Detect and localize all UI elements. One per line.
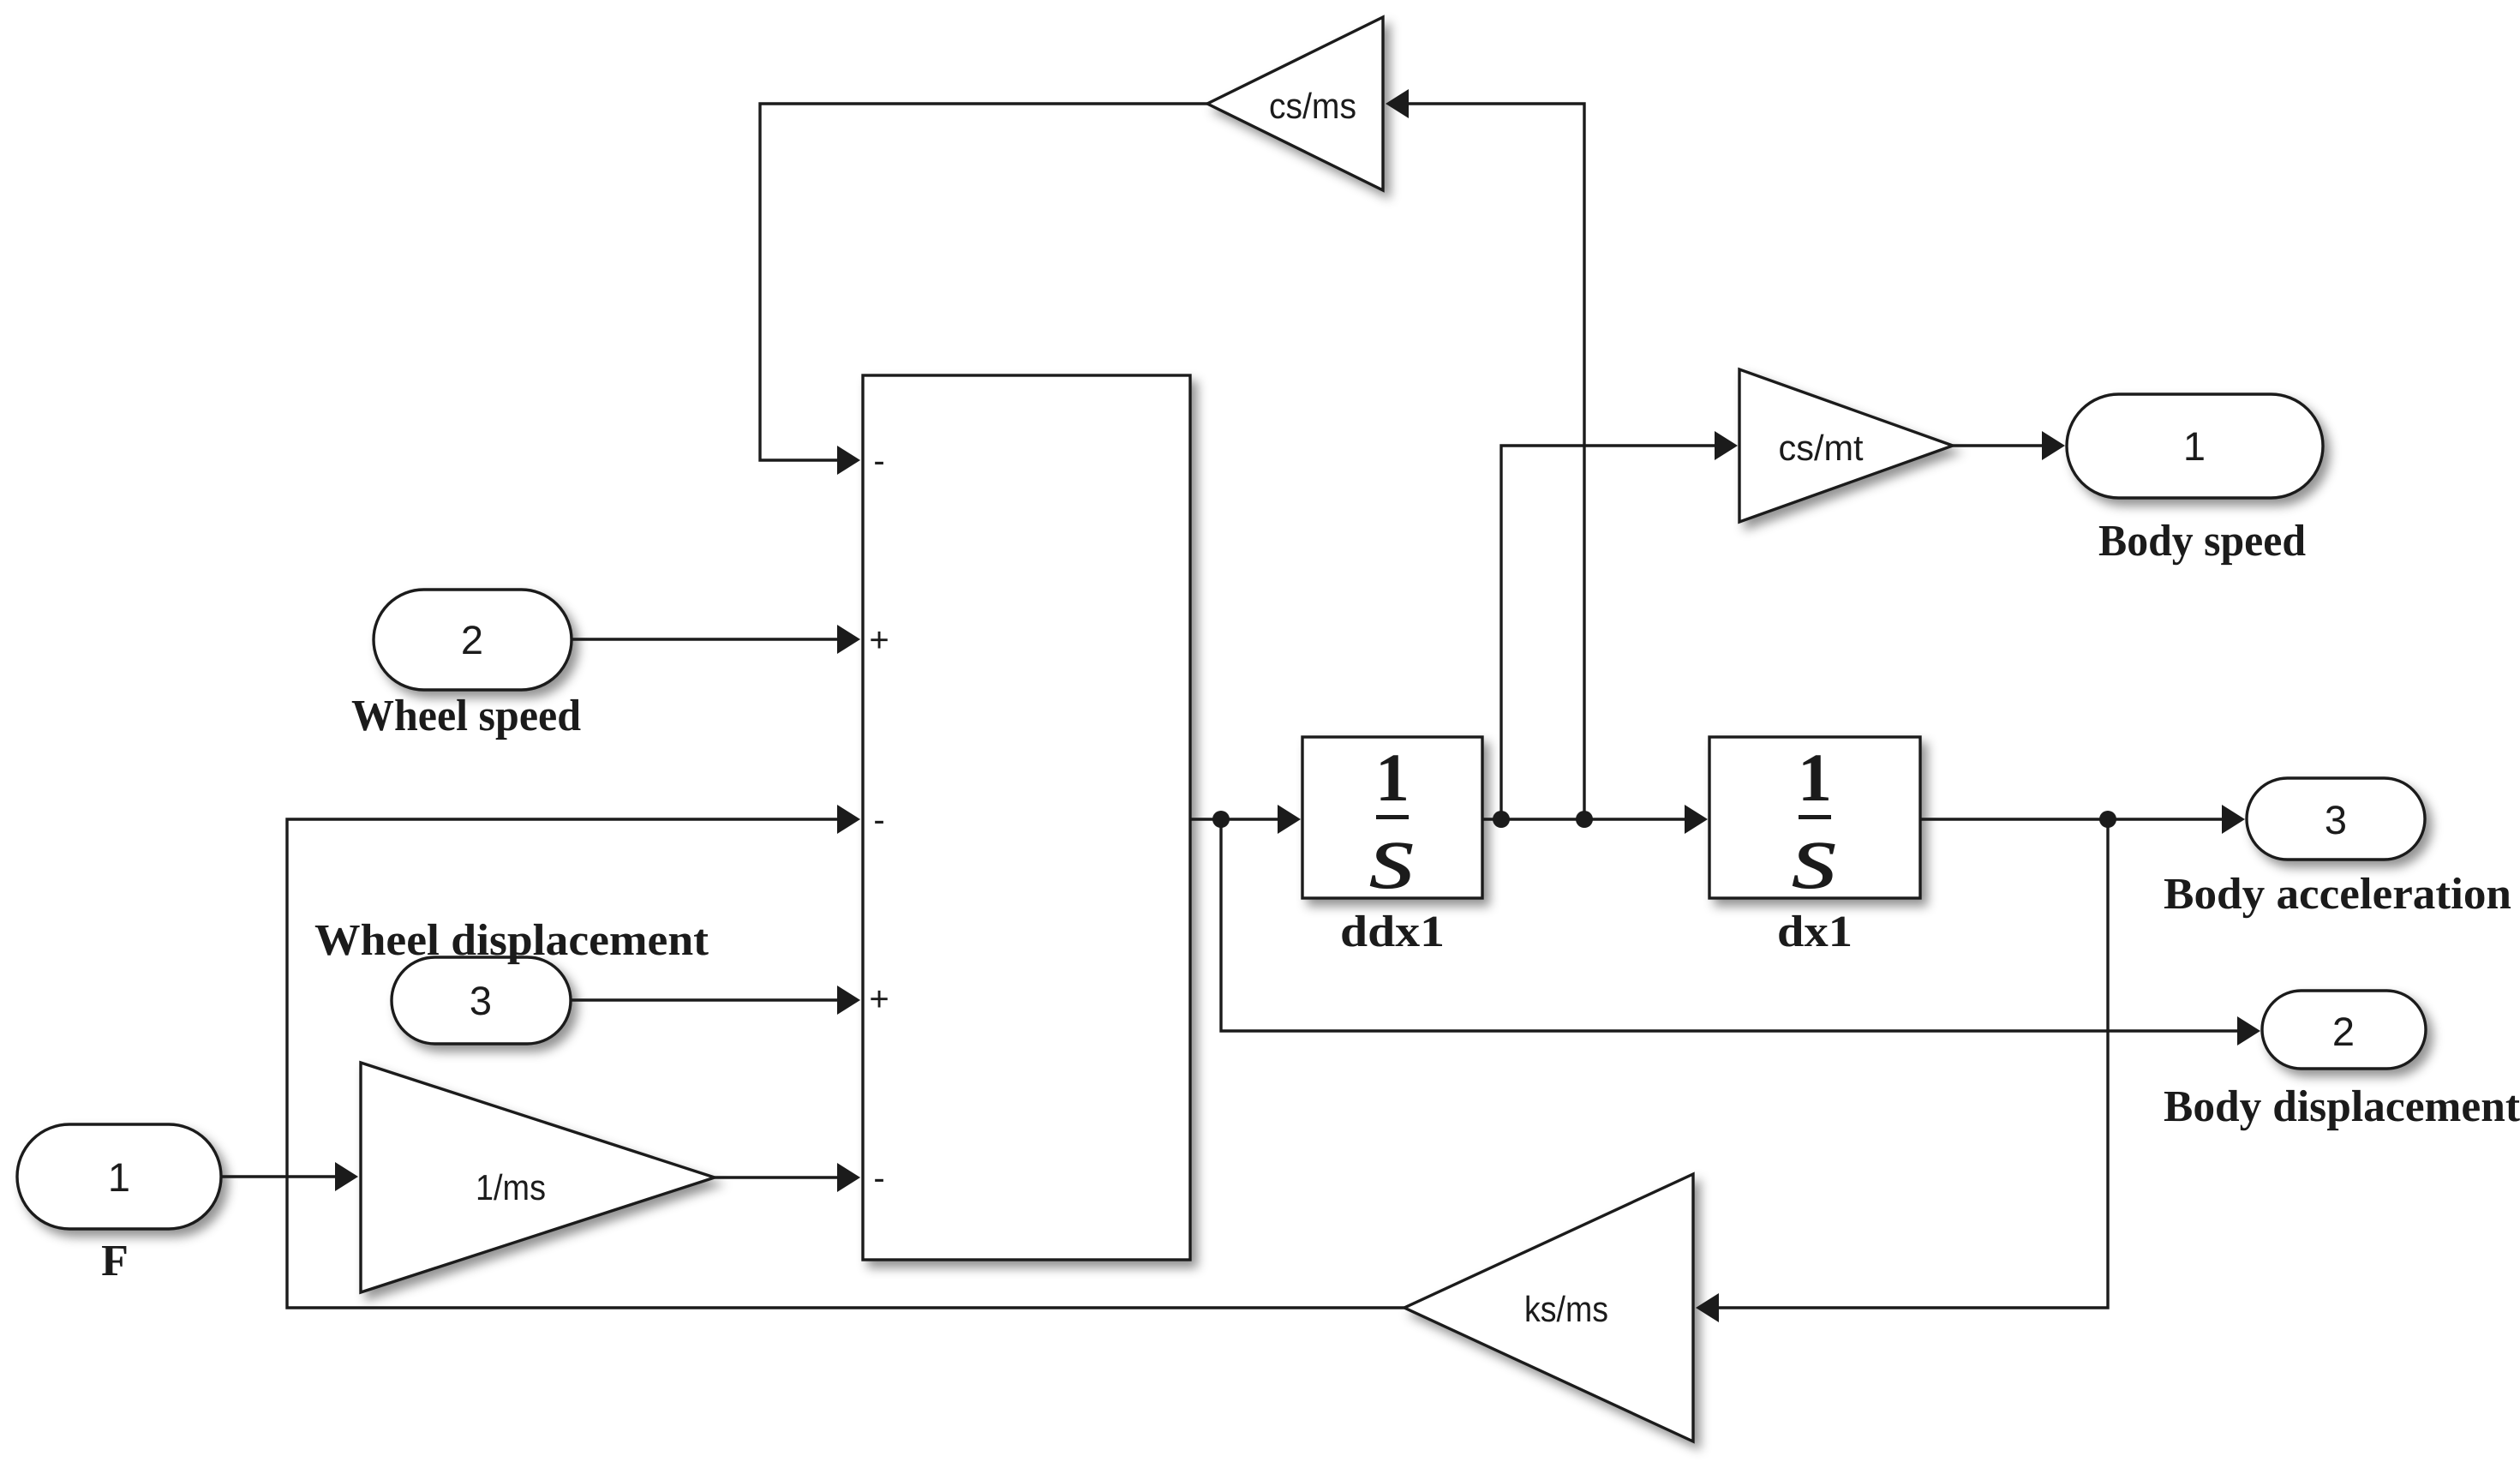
svg-text:3: 3 <box>470 978 492 1023</box>
sum block U1 (five-input add rectangle) <box>863 375 1190 1260</box>
junction dot at dx1 output (branch to ks/ms) <box>2099 811 2116 828</box>
outport 3 oval (Body acceleration) <box>2247 778 2425 860</box>
svg-text:F: F <box>101 1237 129 1285</box>
wire: ddx1 output to dx1 input <box>1482 805 1708 834</box>
wire: Wheel speed to sum input 2 <box>572 625 860 654</box>
svg-text:Body displacement: Body displacement <box>2164 1082 2520 1131</box>
svg-text:Body acceleration: Body acceleration <box>2164 870 2511 919</box>
svg-text:ddx1: ddx1 <box>1340 908 1445 956</box>
integrator dx1 (1/s) <box>1709 737 1920 909</box>
svg-text:2: 2 <box>2332 1009 2355 1054</box>
gain ks/ms (left-pointing triangle, bottom feedback) <box>1404 1174 1693 1441</box>
inport 3 oval (Wheel displacement) <box>392 957 571 1044</box>
gain cs/ms (left-pointing triangle, top feedback) <box>1207 17 1383 190</box>
svg-text:Wheel speed: Wheel speed <box>351 692 581 740</box>
svg-text:1/ms: 1/ms <box>476 1167 546 1207</box>
svg-text:Body speed: Body speed <box>2098 517 2306 566</box>
svg-text:cs/mt: cs/mt <box>1779 428 1864 468</box>
wire: dx1 branch up to cs/ms input (vertical x=1849 and top run) <box>1386 89 1584 819</box>
wire: 1/ms output to sum input 5 <box>715 1163 860 1192</box>
gain 1/ms (right-pointing triangle, from F) <box>361 1063 715 1292</box>
svg-text:ks/ms: ks/ms <box>1524 1289 1608 1329</box>
svg-text:Wheel displacement: Wheel displacement <box>314 916 709 965</box>
wire: cs/ms output to sum input 1 <box>760 104 1207 475</box>
junction dot at ddx1 output (branch to cs/mt) <box>1493 811 1510 828</box>
svg-text:-: - <box>873 1159 884 1197</box>
wire: ks/ms output feedback to sum input 3 <box>287 805 1404 1308</box>
wire: branch up to cs/mt input <box>1501 431 1738 819</box>
wire: cs/mt output to Body speed <box>1953 431 2065 460</box>
svg-text:s: s <box>1791 803 1839 909</box>
junction dot before dx1 input (branch to cs/ms) <box>1576 811 1593 828</box>
svg-text:+: + <box>869 621 889 659</box>
wire: sum output branch down to Body displacement <box>1221 819 2260 1046</box>
svg-text:s: s <box>1368 803 1416 909</box>
svg-text:3: 3 <box>2325 797 2347 842</box>
svg-text:-: - <box>873 442 884 480</box>
svg-text:cs/ms: cs/ms <box>1269 86 1356 126</box>
inport 2 oval (Wheel speed) <box>374 590 572 690</box>
outport 2 oval (Body displacement) <box>2262 991 2426 1069</box>
svg-text:2: 2 <box>461 617 483 662</box>
inport 1 oval (F) <box>17 1124 221 1229</box>
wire: sum output to ddx1 input <box>1190 805 1301 834</box>
wire: Wheel displacement to sum input 4 <box>571 986 860 1015</box>
gain cs/mt (right-pointing triangle, to Body speed) <box>1739 369 1953 522</box>
wire: dx1 output to Body acceleration <box>1920 805 2245 834</box>
svg-text:-: - <box>873 801 884 839</box>
wire: branch down to ks/ms input <box>1696 819 2108 1322</box>
svg-text:+: + <box>869 980 889 1018</box>
wire: F to 1/ms input <box>221 1162 358 1191</box>
svg-text:1: 1 <box>2183 423 2206 469</box>
svg-text:1: 1 <box>108 1154 130 1200</box>
junction dot at sum output branch <box>1212 811 1230 828</box>
svg-text:dx1: dx1 <box>1777 908 1853 956</box>
integrator ddx1 (1/s) <box>1302 737 1482 909</box>
outport 1 oval (Body speed) <box>2067 394 2323 498</box>
